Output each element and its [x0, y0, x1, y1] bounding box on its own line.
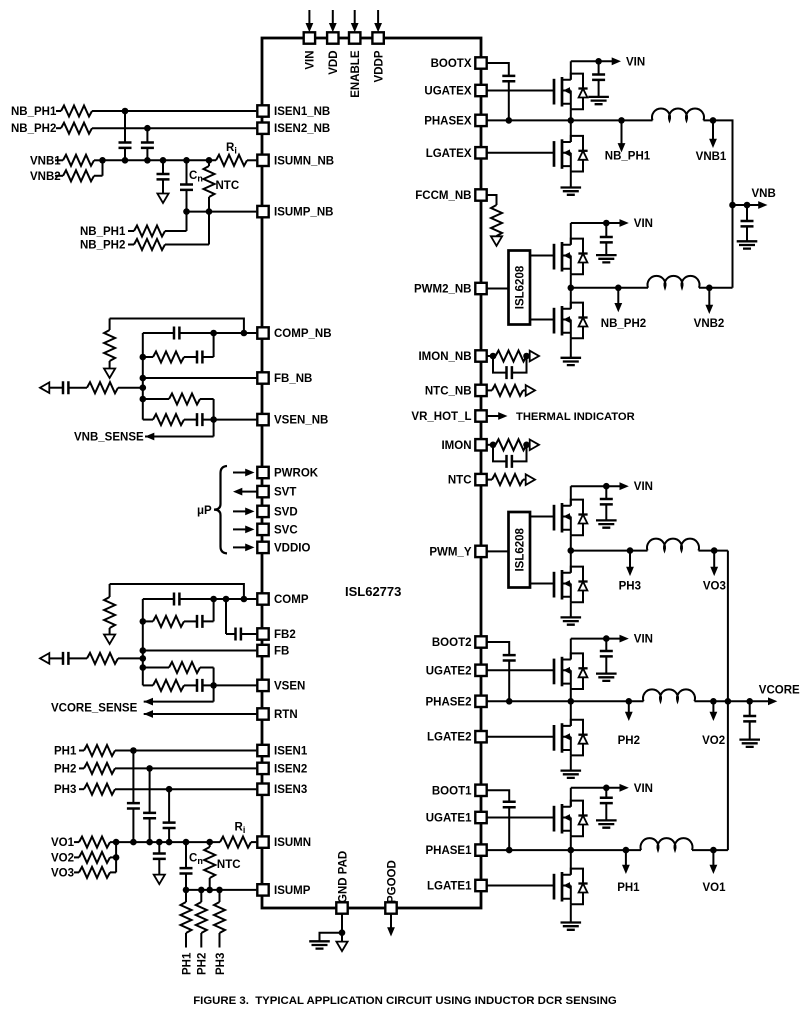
svg-text:VIN: VIN — [626, 57, 645, 69]
wire ISEN1_NB filter cap bottom — [124, 148, 126, 160]
arrow into VDDIO — [245, 544, 254, 552]
svg-text:FB2: FB2 — [274, 629, 296, 641]
junction dots PHASEX net — [506, 117, 717, 124]
wire LGATE1 to gate — [487, 885, 554, 887]
svg-text:VNB1: VNB1 — [30, 155, 61, 167]
svg-text:ISEN3: ISEN3 — [274, 784, 307, 796]
wire feedback input to FB node — [118, 657, 143, 659]
wire VIN rail X — [571, 60, 612, 62]
capacitor feedback input (NB) — [63, 381, 68, 394]
resistor COMP to ground — [104, 597, 115, 628]
wire into pin VDDP — [377, 10, 379, 25]
capacitor VSEN RC — [197, 679, 202, 692]
wire high-side drain Y — [570, 486, 572, 506]
wire low-side drain 1 — [570, 850, 572, 875]
transistor high-side phase 1 — [554, 801, 588, 837]
svg-text:ISUMN_NB: ISUMN_NB — [274, 155, 334, 167]
resistor VO2 — [79, 852, 110, 863]
wire ISEN2_NB filter cap top — [146, 128, 148, 142]
arrow into SVD — [245, 508, 254, 516]
wire VNB2 to sum node — [94, 160, 103, 176]
resistor PH2 return — [196, 902, 207, 933]
arrow NB_PH1 — [618, 143, 626, 152]
wire FB node vertical — [142, 599, 144, 685]
arrow into pin VDD — [329, 23, 337, 32]
svg-text:ISUMP: ISUMP — [274, 885, 311, 897]
resistor VSEN parallel — [169, 662, 200, 673]
connector NTC_NB output — [526, 385, 535, 396]
pin LGATE1 — [475, 880, 486, 891]
wire VIN rail 1 — [571, 787, 620, 789]
svg-text:VNB1: VNB1 — [696, 151, 727, 163]
svg-text:ISL6208: ISL6208 — [515, 527, 527, 571]
arrow VIN 2 — [620, 635, 629, 643]
wire sum node filter cap bottom — [162, 180, 164, 194]
wire low-side drain X — [570, 120, 572, 142]
wire VIN rail NB2 — [571, 222, 620, 224]
wire PH1 tap — [625, 850, 627, 866]
svg-text:PGOOD: PGOOD — [386, 860, 398, 903]
wire VO3 to VCORE rail — [699, 550, 728, 552]
wire PH1 return top — [185, 890, 187, 902]
wire PH1 lead — [79, 750, 84, 752]
inductor NB phase 2 — [648, 276, 700, 288]
junction dots NB phase 2 node — [568, 285, 713, 292]
svg-text:COMP_NB: COMP_NB — [274, 328, 332, 340]
off-page connector (NB feedback) — [40, 382, 49, 393]
capacitor ISEN1_NB filter — [119, 143, 132, 148]
pin BOOT1 — [475, 785, 486, 796]
svg-text:NB_PH1: NB_PH1 — [80, 226, 126, 238]
arrow VO3 — [710, 567, 718, 576]
wire COMP row to pin — [180, 598, 257, 600]
capacitor IMON_NB filter — [507, 366, 512, 379]
svg-text:PH1: PH1 — [617, 882, 640, 894]
wire comp RC to COMP — [203, 599, 214, 621]
wire NTC top (core) — [209, 842, 211, 847]
resistor VO3 — [79, 867, 110, 878]
pin VIN (top) — [304, 32, 315, 43]
svg-text:PWROK: PWROK — [274, 468, 319, 480]
arrow into pin VDDP — [374, 23, 382, 32]
inductor phase 3 — [647, 539, 699, 551]
wire LGATEX to gate — [487, 152, 554, 154]
wire droop resistor top (NB) — [109, 319, 111, 331]
pin PHASEX — [475, 115, 486, 126]
resistor feedback input (NB) — [87, 382, 118, 393]
inductor phase 2 — [643, 689, 695, 701]
wire ISEN1_NB filter cap top — [124, 111, 126, 143]
svg-text:SVC: SVC — [274, 524, 298, 536]
arrow PGOOD output — [387, 927, 395, 936]
pin IMON_NB — [475, 350, 486, 361]
wire SVC arrow — [233, 528, 246, 530]
resistor VSEN_NB parallel — [169, 394, 200, 405]
junction dots core sense network — [113, 747, 223, 893]
ground (earth) low-side 1 — [561, 923, 582, 930]
resistor NTC — [492, 474, 523, 485]
wire VO3 lead — [74, 871, 79, 873]
svg-text:LGATE2: LGATE2 — [427, 732, 472, 744]
wire UGATE2 to gate — [487, 669, 554, 671]
svg-text:FB_NB: FB_NB — [274, 373, 312, 385]
svg-text:SVD: SVD — [274, 506, 298, 518]
wire ISEN1_NB net — [92, 110, 256, 112]
svg-text:PHASE1: PHASE1 — [425, 845, 472, 857]
wire into pin ENABLE — [354, 10, 356, 25]
wire ISUMP_NB net — [187, 211, 257, 213]
wire high-side drain 1 — [570, 788, 572, 807]
arrow into PWROK — [245, 469, 254, 477]
wire VO1 tap — [712, 850, 714, 866]
wire high-side source X — [570, 109, 572, 120]
svg-text:NB_PH1: NB_PH1 — [11, 106, 57, 118]
svg-text:VO2: VO2 — [702, 735, 725, 747]
svg-text:VIN: VIN — [305, 51, 317, 70]
wire ISEN3 filter cap top — [168, 789, 170, 822]
pin ENABLE (top) — [349, 32, 360, 43]
svg-text:VNB: VNB — [752, 188, 776, 200]
ground (earth) low-side 2 — [561, 771, 582, 778]
resistor VSEN_NB RC — [153, 414, 184, 425]
arrow VNB — [758, 201, 767, 209]
wire PHASE1 net — [487, 849, 641, 851]
pin NTC_NB — [475, 385, 486, 396]
wire VIN cap X top — [598, 61, 600, 74]
svg-text:VO2: VO2 — [51, 852, 74, 864]
svg-text:VCORE_SENSE: VCORE_SENSE — [51, 703, 138, 715]
pin VDDIO — [257, 542, 268, 553]
wire PH2 return top — [200, 890, 202, 902]
wire IMON — [487, 444, 496, 446]
wire VO2 tap — [712, 701, 714, 713]
ground (earth) VIN cap NB2 — [596, 255, 617, 262]
svg-text:VIN: VIN — [634, 481, 653, 493]
wire VNB1 to VNB rail — [704, 120, 733, 287]
wire VDDIO arrow — [233, 546, 246, 548]
wire PH3 tap — [629, 551, 631, 568]
resistor IMON_NB — [496, 351, 527, 362]
wire FB_NB to pin — [143, 377, 256, 379]
svg-text:BOOT2: BOOT2 — [432, 637, 472, 649]
svg-text:VIN: VIN — [634, 634, 653, 646]
junction dots PHASE1 net — [506, 847, 717, 854]
wire VCORE cap bottom — [749, 722, 751, 740]
svg-text:PH3: PH3 — [215, 953, 227, 975]
junction dots core compensation network — [140, 596, 248, 689]
wire VNB cap bottom — [746, 227, 748, 242]
capacitor VIN decoupling 1 — [600, 798, 613, 803]
junction dot VIN 1 cap tap — [603, 785, 610, 792]
svg-text:PH1: PH1 — [54, 746, 77, 758]
pin FB_NB — [257, 372, 268, 383]
junction dots VNB tap — [729, 202, 750, 209]
svg-text:ISEN2_NB: ISEN2_NB — [274, 123, 330, 135]
ground (triangle) FCCM_NB — [491, 236, 502, 246]
wire sum node filter cap top — [162, 160, 164, 174]
pin RTN — [257, 708, 268, 719]
pin COMP_NB — [257, 327, 268, 338]
wire IMON cap left — [493, 445, 507, 462]
transistor high-side NB phase 1 — [554, 74, 588, 110]
wire low-side drain 2 — [570, 701, 572, 726]
wire vsen RC lead (NB) — [143, 419, 153, 421]
wire VR_HOT_L — [487, 415, 501, 417]
ground (earth) low-side X — [561, 188, 582, 195]
resistor PH2 to ISEN — [84, 763, 115, 774]
wire VIN cap Y top — [605, 486, 607, 499]
wire VIN cap NB2 bottom — [605, 243, 607, 256]
junction dots PHASE2/VCORE net — [506, 698, 753, 705]
resistor VSEN RC — [153, 680, 184, 691]
wire NB phase 2 node — [571, 287, 648, 289]
svg-text:ISEN1_NB: ISEN1_NB — [274, 106, 330, 118]
wire VO2 to sum — [110, 856, 116, 858]
wire comp RC to COMP_NB — [203, 333, 214, 357]
wire VIN cap Y bottom — [605, 505, 607, 521]
wire VIN cap 1 top — [605, 788, 607, 798]
ground (earth) VCORE cap — [739, 740, 760, 747]
pin ISUMN — [257, 836, 268, 847]
wire comp RC mid — [184, 620, 197, 622]
wire PH2 ISEN net — [115, 767, 256, 769]
wire PH2 tap — [628, 701, 630, 713]
wire PH2 lead — [79, 767, 84, 769]
ground (earth) VIN cap Y — [596, 520, 617, 527]
wire sum filter cap bottom — [158, 859, 160, 875]
wire bootstrap cap 2 to phase — [508, 661, 510, 702]
wire Cn bottom (core) — [185, 874, 187, 890]
wire bootstrap cap X to phase — [508, 81, 510, 120]
capacitor VIN decoupling Y — [600, 499, 613, 504]
wire Cn top — [186, 160, 188, 184]
wire COMP_NB row to cap — [143, 332, 174, 334]
svg-text:VNB2: VNB2 — [30, 171, 61, 183]
resistor comp RC — [153, 616, 184, 627]
ground (earth) GND PAD — [309, 941, 330, 948]
arrow VIN X — [612, 57, 621, 65]
wire VIN cap X bottom — [598, 80, 600, 97]
wire LGATE2 to gate — [487, 736, 554, 738]
wire NB_PH1 return lead — [128, 230, 134, 232]
svg-text:Cn: Cn — [189, 853, 203, 867]
svg-text:ISUMN: ISUMN — [274, 837, 311, 849]
arrow VO2 — [710, 712, 718, 721]
wire high-side drain NB2 — [570, 223, 572, 245]
junction dots IMON — [490, 442, 530, 449]
pin PWM2_NB — [475, 283, 486, 294]
wire PWROK arrow — [233, 472, 246, 474]
wire VNB_SENSE — [145, 436, 214, 438]
pin PHASE2 — [475, 696, 486, 707]
arrow VIN Y — [620, 482, 629, 490]
svg-text:NTC_NB: NTC_NB — [425, 385, 472, 397]
arrow into pin ENABLE — [351, 23, 359, 32]
wire low-side source 1 — [570, 904, 572, 922]
svg-text:IMON_NB: IMON_NB — [418, 351, 471, 363]
wire NB_PH1 lead — [56, 110, 61, 112]
wire NTC bottom (core) — [209, 878, 211, 890]
wire sum filter cap top — [158, 842, 160, 853]
svg-text:LGATE1: LGATE1 — [427, 881, 472, 893]
resistor FCCM_NB pull-down — [491, 205, 502, 236]
wire VO1 to VCORE rail — [692, 849, 728, 851]
arrow VNB1 — [709, 139, 717, 148]
wire FB2 to pin — [241, 633, 256, 635]
svg-text:VNB_SENSE: VNB_SENSE — [74, 432, 144, 444]
pin ISEN1_NB — [257, 105, 268, 116]
pin PWROK — [257, 467, 268, 478]
wire BOOTX to bootstrap cap — [487, 63, 509, 76]
resistor NTC (core) — [204, 847, 215, 878]
pin NTC — [475, 474, 486, 485]
wire PWM2_NB to driver — [487, 288, 509, 290]
ground (earth) VNB cap — [737, 241, 758, 248]
wire ISEN2_NB filter cap bottom — [146, 148, 148, 160]
pin FB2 — [257, 628, 268, 639]
wire VNB2 to VNB rail — [699, 287, 733, 289]
junction dots NB sense network — [99, 108, 212, 215]
svg-text:NB_PH2: NB_PH2 — [601, 318, 646, 330]
arrow PH3 — [626, 567, 634, 576]
capacitor Cn (NB) — [180, 185, 193, 190]
resistor NTC_NB — [492, 385, 523, 396]
pin PWM_Y — [475, 546, 486, 557]
wire Ri to ISUMN_NB pin — [247, 159, 256, 161]
svg-text:Cn: Cn — [189, 170, 203, 184]
microprocessor interface brace — [214, 466, 227, 553]
wire feedback input mid — [69, 657, 88, 659]
arrow VCORE_SENSE (VSEN) — [144, 698, 153, 706]
wire PHASE2 net — [487, 700, 644, 702]
pin GND PAD (bottom) — [336, 902, 347, 913]
svg-text:PH2: PH2 — [197, 953, 209, 975]
wire PH1 ISEN net — [115, 750, 256, 752]
capacitor bootstrap X — [502, 76, 515, 81]
wire ISEN3 filter cap bottom — [168, 828, 170, 842]
wire UGATE1 to gate — [487, 817, 554, 819]
wire VSEN_NB parallel to node — [200, 399, 214, 437]
wire PH3 return bottom — [219, 933, 221, 948]
driver U3 ISL6208 outline — [509, 512, 531, 588]
svg-text:VO1: VO1 — [51, 837, 75, 849]
capacitor FB2 — [236, 628, 241, 641]
wire droop resistor bottom (NB) — [109, 361, 111, 369]
wire VIN cap 2 bottom — [605, 657, 607, 674]
pin ISUMN_NB — [257, 155, 268, 166]
resistor VO1 — [79, 837, 110, 848]
wire FB_NB node vertical — [142, 333, 144, 420]
wire VIN cap 1 bottom — [605, 803, 607, 820]
wire VIN rail Y — [571, 485, 620, 487]
wire NTC bottom (NB) — [208, 197, 210, 212]
junction dot VIN 2 cap tap — [603, 635, 610, 642]
capacitor COMP feedback — [174, 593, 179, 606]
wire IMON_NB cap right — [512, 356, 527, 373]
resistor PH3 to ISEN — [84, 784, 115, 795]
pin SVC — [257, 524, 268, 535]
capacitor ISEN1 filter — [127, 803, 140, 808]
svg-text:ISL62773: ISL62773 — [345, 584, 401, 599]
capacitor sum node filter to ground — [153, 854, 166, 859]
svg-text:PWM_Y: PWM_Y — [429, 546, 472, 558]
wire VCORE_SENSE (RTN) — [144, 713, 257, 715]
svg-text:PH2: PH2 — [54, 763, 76, 775]
svg-text:PH3: PH3 — [54, 784, 76, 796]
wire VIN cap NB2 top — [605, 223, 607, 237]
ground (triangle) droop resistor — [104, 635, 115, 645]
wire NTC to connector — [523, 479, 526, 481]
wire driver U3 upper gate — [530, 516, 554, 518]
svg-text:NB_PH2: NB_PH2 — [80, 240, 125, 252]
wire high-side source 1 — [570, 836, 572, 850]
ground (earth) VIN cap X — [588, 97, 609, 104]
wire feedback input to FB_NB node — [118, 387, 143, 389]
wire VIN rail 2 — [571, 638, 620, 640]
wire COMP top bypass — [110, 584, 244, 599]
svg-text:VIN: VIN — [634, 783, 653, 795]
pin IMON — [475, 439, 486, 450]
svg-text:PWM2_NB: PWM2_NB — [414, 284, 472, 296]
pin VR_HOT_L — [475, 410, 486, 421]
svg-text:PH2: PH2 — [618, 735, 640, 747]
svg-text:VIN: VIN — [634, 218, 653, 230]
pin ISUMP_NB — [257, 206, 268, 217]
pin ISEN2_NB — [257, 123, 268, 134]
capacitor ISEN2 filter — [143, 813, 156, 818]
pin SVT — [257, 486, 268, 497]
ground (triangle) droop resistor (NB) — [104, 369, 115, 379]
transistor low-side phase 2 — [554, 720, 588, 756]
svg-text:IMON: IMON — [441, 440, 471, 452]
ground (earth) low-side Y — [561, 617, 582, 624]
svg-text:PH1: PH1 — [181, 952, 193, 975]
wire VCORE_SENSE (VSEN) — [144, 701, 214, 703]
wire high-side drain X — [570, 61, 572, 79]
svg-text:PH3: PH3 — [619, 581, 641, 593]
svg-text:μP: μP — [197, 505, 212, 517]
wire droop resistor top — [109, 584, 111, 597]
capacitor bootstrap 1 — [503, 802, 516, 807]
svg-text:VO3: VO3 — [51, 867, 74, 879]
ground (earth) VIN cap 1 — [596, 820, 617, 827]
resistor IMON — [496, 439, 527, 450]
wire IMON_NB — [487, 355, 496, 357]
arrow PH1 — [622, 865, 630, 874]
wire VSEN_NB to pin — [203, 419, 257, 421]
arrow VCORE — [768, 697, 777, 705]
pin PHASE1 — [475, 844, 486, 855]
wire comp RC lead (NB) — [143, 356, 153, 358]
wire PH2 return bottom — [200, 933, 202, 948]
wire PWM_Y to driver — [487, 550, 509, 552]
svg-text:RTN: RTN — [274, 709, 298, 721]
wire PGOOD down — [390, 914, 392, 928]
svg-text:ISL6208: ISL6208 — [515, 265, 527, 309]
svg-text:VR_HOT_L: VR_HOT_L — [411, 411, 471, 423]
wire FCCM_NB — [487, 195, 497, 205]
inductor NB phase 1 — [652, 108, 704, 120]
wire droop resistor bottom — [109, 628, 111, 635]
capacitor VIN decoupling 2 — [600, 651, 613, 656]
pin FCCM_NB — [475, 189, 486, 200]
junction dot GND PAD — [339, 929, 346, 936]
capacitor comp RC — [197, 615, 202, 628]
capacitor VIN decoupling NB2 — [600, 237, 613, 242]
wire VIN cap 2 top — [605, 639, 607, 651]
transistor high-side NB phase 2 — [554, 239, 588, 275]
wire bootstrap cap 1 to phase — [508, 807, 510, 850]
